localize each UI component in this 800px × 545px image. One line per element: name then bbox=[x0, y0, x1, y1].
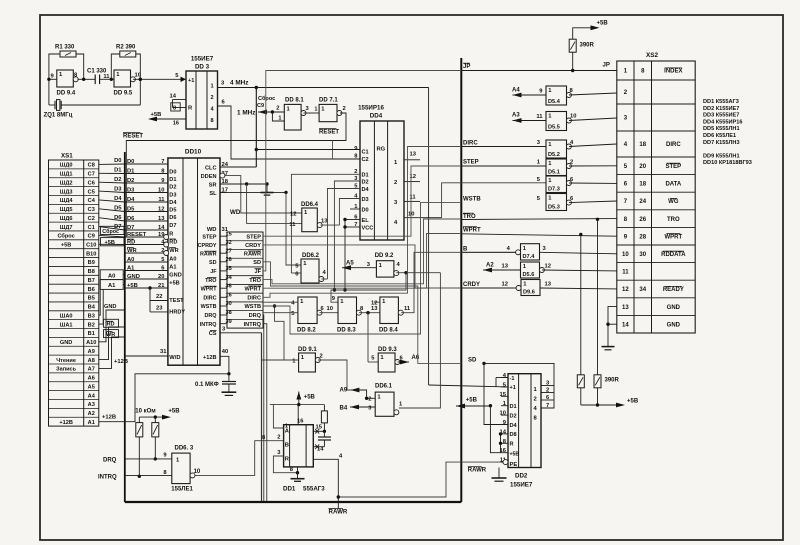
svg-text:RAWR: RAWR bbox=[329, 509, 348, 516]
svg-text:5: 5 bbox=[624, 164, 628, 170]
svg-text:DD4 К555ИР16: DD4 К555ИР16 bbox=[703, 119, 742, 125]
svg-text:+5В: +5В bbox=[151, 112, 162, 118]
svg-text:D2: D2 bbox=[114, 177, 121, 183]
svg-text:C5: C5 bbox=[88, 189, 95, 195]
svg-text:8: 8 bbox=[262, 435, 266, 441]
svg-text:B4: B4 bbox=[88, 305, 96, 311]
svg-text:4: 4 bbox=[397, 262, 401, 268]
inverter DD8.3 bbox=[338, 297, 357, 324]
svg-text:18: 18 bbox=[639, 182, 646, 188]
svg-text:DD 9.4: DD 9.4 bbox=[57, 91, 76, 97]
svg-text:A4: A4 bbox=[512, 88, 520, 94]
svg-text:1: 1 bbox=[340, 299, 344, 305]
wire DD2 pins 14 8 16 bracket bbox=[500, 434, 502, 453]
svg-text:1: 1 bbox=[278, 116, 281, 122]
svg-text:7: 7 bbox=[624, 199, 628, 205]
svg-text:-1: -1 bbox=[510, 376, 515, 382]
svg-text:26: 26 bbox=[639, 217, 646, 223]
svg-text:DD 8.2: DD 8.2 bbox=[297, 328, 316, 334]
svg-text:RESET: RESET bbox=[123, 134, 143, 140]
inverter D5.3 bbox=[546, 194, 567, 211]
svg-text:D6: D6 bbox=[114, 215, 122, 221]
svg-text:C2: C2 bbox=[362, 157, 369, 163]
svg-text:C2: C2 bbox=[88, 216, 95, 222]
svg-text:VCC: VCC bbox=[362, 225, 374, 231]
svg-text:8: 8 bbox=[211, 118, 214, 124]
svg-text:A0: A0 bbox=[169, 256, 176, 262]
wire XS2 GND rows 13 14 bbox=[608, 307, 617, 347]
svg-text:D3: D3 bbox=[362, 197, 369, 203]
crystal ZQ1 8MHz bbox=[49, 104, 55, 106]
svg-text:1: 1 bbox=[548, 196, 552, 202]
svg-text:D7: D7 bbox=[169, 223, 176, 229]
svg-text:+5В: +5В bbox=[510, 451, 520, 457]
svg-text:1: 1 bbox=[303, 261, 307, 267]
svg-text:D0: D0 bbox=[114, 158, 121, 164]
svg-text:CRDY: CRDY bbox=[245, 243, 261, 249]
svg-text:34: 34 bbox=[639, 287, 646, 293]
svg-text:D9.6: D9.6 bbox=[523, 290, 535, 296]
svg-text:1: 1 bbox=[537, 160, 541, 166]
svg-text:DD 7.1: DD 7.1 bbox=[319, 98, 338, 104]
svg-text:READY: READY bbox=[663, 287, 684, 293]
svg-text:C1 330: C1 330 bbox=[87, 69, 107, 75]
svg-text:RDDATA: RDDATA bbox=[661, 252, 686, 258]
svg-text:14: 14 bbox=[622, 322, 629, 328]
svg-text:ШД6: ШД6 bbox=[60, 216, 73, 222]
wire WPRT to exit bbox=[263, 234, 461, 289]
svg-text:155ИЕ7: 155ИЕ7 bbox=[510, 482, 533, 489]
svg-text:RAWR: RAWR bbox=[468, 468, 487, 474]
svg-text:C7: C7 bbox=[88, 172, 95, 178]
svg-text:12: 12 bbox=[502, 282, 508, 288]
wire TEST pin 22 tied to +5V bbox=[148, 286, 151, 289]
wire XS1 data bus to DD10 with D0-D7 labels bbox=[99, 163, 125, 165]
svg-text:A3: A3 bbox=[512, 113, 520, 119]
svg-text:D5.1: D5.1 bbox=[548, 170, 560, 176]
wire D5.1 to XS2 row5 bbox=[569, 165, 617, 167]
svg-text:13: 13 bbox=[622, 305, 629, 311]
svg-text:D6: D6 bbox=[169, 215, 176, 221]
wire TRO to exit bbox=[263, 219, 461, 284]
svg-text:3: 3 bbox=[624, 116, 628, 122]
svg-text:INDEX: INDEX bbox=[664, 69, 682, 75]
svg-text:XS1: XS1 bbox=[61, 153, 73, 160]
wire D7.4 to XS2 row10 bbox=[540, 252, 617, 254]
svg-text:+12В: +12В bbox=[203, 355, 217, 361]
wire CRDY to exit bbox=[263, 245, 461, 288]
wire DD9.5 output to DD3 pin 5 bbox=[133, 78, 184, 80]
svg-text:D4: D4 bbox=[510, 423, 518, 429]
svg-text:1: 1 bbox=[304, 210, 308, 216]
wire +12V row A1 to rail bbox=[99, 374, 229, 422]
wire DD4 D0 EL VCC stubs bbox=[350, 208, 360, 210]
svg-text:1: 1 bbox=[116, 72, 120, 78]
svg-text:TEST: TEST bbox=[169, 298, 184, 304]
svg-text:RAWR: RAWR bbox=[244, 251, 261, 257]
svg-text:18: 18 bbox=[639, 142, 646, 148]
wire DD3 pin 14 and pin 8 bracket bbox=[173, 99, 187, 101]
svg-text:8: 8 bbox=[570, 88, 574, 94]
svg-text:8: 8 bbox=[503, 439, 507, 445]
svg-text:10 кОм: 10 кОм bbox=[135, 409, 156, 415]
svg-text:C8: C8 bbox=[88, 163, 95, 169]
svg-text:DD1: DD1 bbox=[283, 486, 296, 493]
wire Chtenie RD bbox=[99, 327, 125, 360]
svg-text:B: B bbox=[285, 442, 289, 448]
svg-text:R: R bbox=[510, 442, 514, 448]
svg-text:155ИЕ7: 155ИЕ7 bbox=[191, 56, 214, 63]
inverter DD8.2 bbox=[298, 297, 317, 324]
svg-text:RESET: RESET bbox=[319, 130, 339, 136]
svg-text:C1: C1 bbox=[88, 225, 95, 231]
wire Zapis WR bbox=[99, 337, 125, 368]
svg-text:ШД4: ШД4 bbox=[60, 198, 74, 204]
svg-text:D1: D1 bbox=[169, 177, 176, 183]
wire 4MHz/clock rail down right corridor to DD2 bbox=[428, 88, 430, 386]
svg-text:1: 1 bbox=[548, 88, 552, 94]
wire DD4 D3 input from DD6.4 output bbox=[339, 199, 360, 226]
svg-text:2: 2 bbox=[276, 106, 279, 112]
svg-text:2: 2 bbox=[624, 90, 628, 96]
svg-text:R1 330: R1 330 bbox=[55, 45, 75, 51]
svg-text:RAWR: RAWR bbox=[200, 251, 217, 257]
svg-text:B6: B6 bbox=[88, 287, 95, 293]
svg-text:5: 5 bbox=[537, 196, 541, 202]
svg-text:11: 11 bbox=[536, 114, 543, 120]
svg-text:WD: WD bbox=[207, 227, 217, 233]
wire D5.2 to XS2 row4 bbox=[569, 144, 617, 147]
inner controller-card boundary: right edge bbox=[460, 58, 462, 502]
svg-text:WSTB: WSTB bbox=[463, 196, 481, 202]
svg-text:ШД3: ШД3 bbox=[60, 189, 73, 195]
svg-text:D3: D3 bbox=[169, 192, 176, 198]
svg-text:SD: SD bbox=[209, 260, 217, 266]
svg-text:D2: D2 bbox=[362, 179, 369, 185]
svg-text:RG: RG bbox=[377, 147, 386, 153]
svg-text:D1: D1 bbox=[510, 404, 517, 410]
svg-text:1: 1 bbox=[287, 107, 291, 113]
svg-text:A5: A5 bbox=[88, 384, 95, 390]
wire DD8.4 out up to B exit bbox=[401, 252, 519, 312]
wire JF to JP exit bbox=[263, 71, 461, 271]
svg-text:16: 16 bbox=[173, 121, 179, 127]
svg-text:3: 3 bbox=[306, 106, 310, 112]
svg-text:DD10: DD10 bbox=[185, 149, 202, 156]
svg-text:DIRC: DIRC bbox=[247, 296, 261, 302]
svg-text:INTRQ: INTRQ bbox=[98, 475, 117, 481]
svg-text:3: 3 bbox=[543, 246, 547, 252]
svg-text:A10: A10 bbox=[86, 340, 96, 346]
svg-text:9: 9 bbox=[354, 146, 358, 152]
wire DD8.4 input 12 bbox=[374, 301, 380, 303]
wire CLC to 4MHz bbox=[220, 166, 256, 168]
svg-text:CS: CS bbox=[209, 331, 217, 337]
svg-text:D0: D0 bbox=[362, 207, 369, 213]
svg-text:D1: D1 bbox=[362, 172, 369, 178]
svg-text:390R: 390R bbox=[605, 378, 620, 384]
svg-text:DD6.1: DD6.1 bbox=[375, 384, 393, 390]
svg-text:3: 3 bbox=[394, 200, 398, 206]
wire DRQ from DD10 down corridor bbox=[262, 315, 265, 501]
svg-text:B9: B9 bbox=[88, 260, 95, 266]
svg-text:5: 5 bbox=[371, 356, 375, 362]
svg-text:A7: A7 bbox=[88, 367, 95, 373]
svg-text:12: 12 bbox=[410, 174, 416, 180]
svg-text:12: 12 bbox=[371, 301, 377, 307]
wire to DD9.3 input bbox=[367, 313, 369, 362]
svg-text:2: 2 bbox=[211, 95, 214, 101]
wire DD6.2 output to DD4 D4 bbox=[321, 278, 327, 280]
svg-text:2: 2 bbox=[570, 160, 573, 166]
svg-text:Сброс: Сброс bbox=[57, 233, 74, 240]
svg-text:D8: D8 bbox=[510, 432, 517, 438]
svg-text:WG: WG bbox=[668, 199, 679, 205]
svg-text:D4: D4 bbox=[362, 187, 370, 193]
svg-text:14: 14 bbox=[170, 94, 177, 100]
svg-text:STEP: STEP bbox=[666, 164, 682, 170]
svg-text:TRO: TRO bbox=[667, 217, 680, 223]
counter DD2 155IE7 bbox=[508, 374, 541, 468]
svg-text:2: 2 bbox=[546, 387, 549, 393]
svg-text:C6: C6 bbox=[88, 180, 95, 186]
svg-text:1: 1 bbox=[624, 69, 628, 75]
svg-text:W/D: W/D bbox=[169, 355, 180, 361]
wire DIRC to exit bbox=[263, 147, 461, 298]
svg-text:DD6 К55ЛЕ1: DD6 К55ЛЕ1 bbox=[703, 133, 736, 139]
svg-text:SL: SL bbox=[209, 191, 217, 197]
svg-text:ШД0: ШД0 bbox=[60, 163, 73, 169]
svg-text:D5: D5 bbox=[114, 206, 122, 212]
svg-text:INTRQ: INTRQ bbox=[244, 322, 262, 328]
svg-text:WSTB: WSTB bbox=[201, 304, 217, 310]
svg-text:5: 5 bbox=[175, 73, 179, 79]
svg-text:GND: GND bbox=[667, 305, 681, 311]
svg-text:D5.4: D5.4 bbox=[548, 99, 561, 105]
svg-text:DIRC: DIRC bbox=[203, 296, 216, 302]
svg-text:A6: A6 bbox=[88, 376, 95, 382]
svg-text:C4: C4 bbox=[88, 198, 96, 204]
resistor DD1 timing bbox=[321, 411, 327, 423]
svg-text:1: 1 bbox=[379, 263, 383, 269]
svg-text:DD6.4: DD6.4 bbox=[301, 202, 319, 208]
svg-text:+5В: +5В bbox=[597, 21, 609, 27]
svg-text:28: 28 bbox=[639, 234, 646, 240]
svg-text:11: 11 bbox=[289, 222, 296, 228]
svg-text:JF: JF bbox=[254, 269, 261, 275]
svg-text:B2: B2 bbox=[88, 322, 95, 328]
svg-text:23: 23 bbox=[156, 306, 163, 312]
svg-text:6: 6 bbox=[570, 196, 574, 202]
svg-text:4: 4 bbox=[323, 270, 327, 276]
inverter DD9.4 bbox=[57, 70, 74, 87]
svg-text:ША0: ША0 bbox=[60, 313, 73, 319]
wire W/D pin 31 bbox=[125, 355, 168, 357]
inner controller-card boundary: left edge bbox=[124, 152, 126, 502]
svg-text:D5.5: D5.5 bbox=[548, 125, 560, 131]
wire oscillator feedback R1 bbox=[49, 78, 57, 80]
wire HRDY pin 23 bbox=[150, 311, 168, 313]
svg-text:555АГ3: 555АГ3 bbox=[303, 486, 325, 493]
svg-text:4: 4 bbox=[211, 107, 215, 113]
wire ZQ1 right leg up to DD9.5 output bbox=[139, 79, 141, 105]
wire D5.3 to XS2 row7 bbox=[569, 201, 617, 203]
svg-text:22: 22 bbox=[156, 294, 162, 300]
svg-text:12: 12 bbox=[622, 287, 629, 293]
svg-text:4: 4 bbox=[507, 246, 511, 252]
svg-text:DD2: DD2 bbox=[515, 473, 528, 480]
svg-text:D4: D4 bbox=[169, 200, 177, 206]
wire DD9.1 input bbox=[262, 359, 299, 361]
svg-text:20: 20 bbox=[639, 164, 646, 170]
svg-text:13: 13 bbox=[410, 152, 417, 158]
wire D5.6 to XS2 row11 bbox=[542, 269, 617, 272]
wire RESET branch to DD4 C2 bbox=[332, 141, 334, 160]
svg-text:2: 2 bbox=[394, 180, 397, 186]
svg-text:9: 9 bbox=[539, 89, 543, 95]
wire DDEN stub to DD6.4 pin12 bbox=[225, 176, 302, 213]
svg-text:Чтение: Чтение bbox=[56, 358, 76, 364]
svg-text:DD4: DD4 bbox=[370, 113, 383, 120]
svg-text:STEP: STEP bbox=[246, 234, 261, 240]
wire D7.3 to XS2 row6 bbox=[569, 182, 617, 184]
svg-text:2: 2 bbox=[343, 106, 346, 112]
wire RESET net from DD7.1 output to DD10 bbox=[126, 113, 346, 237]
svg-text:4: 4 bbox=[394, 220, 398, 226]
node +5V arrow DD1 bbox=[296, 392, 301, 400]
svg-text:C9: C9 bbox=[88, 234, 95, 240]
inverter D5.1 bbox=[546, 159, 567, 176]
svg-text:DD5 К555ЛН1: DD5 К555ЛН1 bbox=[703, 126, 740, 132]
svg-text:1: 1 bbox=[321, 107, 325, 113]
ground DD2 bbox=[498, 468, 500, 479]
svg-text:B10: B10 bbox=[86, 251, 96, 257]
svg-text:8: 8 bbox=[641, 69, 645, 75]
svg-text:DD10 КР1818ВГ93: DD10 КР1818ВГ93 bbox=[703, 160, 752, 166]
wire INTRQ from DD10 down corridor bbox=[263, 324, 267, 501]
inverter D7.3 bbox=[546, 176, 567, 193]
svg-text:A: A bbox=[285, 429, 290, 435]
svg-text:DD 9.5: DD 9.5 bbox=[114, 91, 133, 97]
svg-text:A8: A8 bbox=[88, 358, 95, 364]
svg-text:XS2: XS2 bbox=[646, 52, 659, 59]
svg-text:А1: А1 bbox=[108, 283, 116, 289]
svg-text:8: 8 bbox=[290, 467, 294, 473]
svg-text:12: 12 bbox=[545, 264, 551, 270]
svg-text:DD6.2: DD6.2 bbox=[302, 253, 320, 259]
svg-text:6: 6 bbox=[321, 306, 325, 312]
ground symbol XS2 bbox=[602, 346, 615, 348]
svg-text:RD: RD bbox=[107, 322, 115, 328]
svg-text:31: 31 bbox=[160, 349, 167, 355]
svg-text:+5В: +5В bbox=[169, 280, 179, 286]
svg-text:C1: C1 bbox=[362, 149, 369, 155]
svg-text:DD3 К555ИЕ7: DD3 К555ИЕ7 bbox=[703, 113, 739, 119]
wire D9.6 to XS2 row12 bbox=[540, 287, 617, 290]
svg-text:TRO: TRO bbox=[249, 278, 261, 284]
svg-text:+5В: +5В bbox=[61, 243, 71, 249]
svg-text:6: 6 bbox=[295, 271, 299, 277]
svg-text:A2: A2 bbox=[486, 263, 494, 269]
svg-text:WPRT: WPRT bbox=[665, 234, 683, 240]
svg-text:C10: C10 bbox=[86, 243, 96, 249]
svg-text:13: 13 bbox=[371, 306, 378, 312]
svg-text:+5В: +5В bbox=[627, 399, 639, 405]
svg-text:9: 9 bbox=[624, 234, 628, 240]
svg-text:RD: RD bbox=[169, 239, 177, 245]
svg-text:11: 11 bbox=[404, 306, 411, 312]
svg-text:4: 4 bbox=[503, 373, 507, 379]
svg-text:11: 11 bbox=[410, 195, 417, 201]
svg-text:1: 1 bbox=[523, 264, 527, 270]
inner controller-card boundary: bottom edge bbox=[125, 501, 462, 503]
svg-text:+1: +1 bbox=[510, 385, 516, 391]
svg-text:1: 1 bbox=[534, 387, 538, 393]
svg-text:WR: WR bbox=[169, 248, 178, 254]
wire D5.5 to XS2 row3 bbox=[569, 118, 617, 121]
resistor R1 330 bbox=[60, 51, 76, 57]
inverter D5.6 bbox=[521, 262, 540, 278]
wire DD4 D1 input bbox=[291, 174, 360, 273]
wire DD8.2 inputs bbox=[263, 301, 298, 303]
svg-text:4: 4 bbox=[339, 454, 343, 460]
svg-text:7: 7 bbox=[546, 403, 549, 409]
svg-text:GND: GND bbox=[667, 322, 681, 328]
svg-text:1: 1 bbox=[315, 106, 318, 112]
wire oscillator feedback R2 bbox=[111, 54, 120, 79]
svg-text:CRDY: CRDY bbox=[463, 282, 480, 288]
inverter DD9.5 bbox=[114, 70, 131, 87]
svg-text:10: 10 bbox=[500, 411, 506, 417]
svg-text:R2 390: R2 390 bbox=[116, 45, 136, 51]
svg-text:D4: D4 bbox=[114, 196, 122, 202]
wire DD4 pin10 up to DD7.3 input bbox=[442, 183, 546, 218]
wire SR to ground bbox=[220, 183, 267, 185]
svg-text:CLC: CLC bbox=[205, 165, 217, 171]
svg-text:155ЛЕ1: 155ЛЕ1 bbox=[171, 487, 193, 493]
svg-text:1: 1 bbox=[300, 299, 304, 305]
svg-text:B7: B7 bbox=[88, 278, 95, 284]
wire DD3 pin 16 +5V bbox=[152, 118, 186, 120]
svg-text:SD: SD bbox=[253, 260, 261, 266]
wire DD6.1 output bbox=[399, 273, 441, 408]
svg-text:5: 5 bbox=[295, 263, 299, 269]
svg-text:WD: WD bbox=[230, 209, 241, 216]
svg-text:+1: +1 bbox=[188, 78, 194, 84]
svg-text:1: 1 bbox=[382, 299, 386, 305]
svg-text:1: 1 bbox=[523, 246, 527, 252]
svg-text:6: 6 bbox=[570, 177, 574, 183]
svg-text:DIRC: DIRC bbox=[666, 142, 681, 148]
svg-text:D5: D5 bbox=[169, 208, 176, 214]
resistor R2 390 bbox=[120, 51, 136, 57]
svg-text:DD7 К155ЛН3: DD7 К155ЛН3 bbox=[703, 140, 740, 146]
svg-text:D7.3: D7.3 bbox=[548, 187, 560, 193]
svg-text:+5В: +5В bbox=[466, 398, 478, 404]
svg-text:8: 8 bbox=[534, 416, 538, 422]
svg-text:1: 1 bbox=[301, 355, 305, 361]
wire DD6.4 pin 11 bbox=[245, 182, 248, 185]
wire TRO pullup vertical bbox=[597, 219, 599, 374]
svg-text:HRDY: HRDY bbox=[169, 310, 185, 316]
svg-text:1: 1 bbox=[399, 402, 403, 408]
svg-text:9: 9 bbox=[503, 420, 507, 426]
svg-text:5: 5 bbox=[291, 311, 295, 317]
svg-text:4: 4 bbox=[570, 140, 574, 146]
svg-text:B1: B1 bbox=[88, 331, 95, 337]
svg-text:ШД1: ШД1 bbox=[60, 172, 73, 178]
svg-text:A3: A3 bbox=[88, 402, 95, 408]
